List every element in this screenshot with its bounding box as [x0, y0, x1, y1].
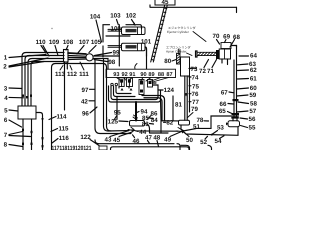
leader ejector text — [193, 32, 206, 42]
lower cylinder internal lines — [138, 44, 142, 51]
valve B2 — [148, 80, 153, 88]
svg-text:3: 3 — [4, 86, 8, 93]
lines right of circle — [93, 56, 119, 69]
leader from 80 — [172, 60, 176, 62]
svg-text:54: 54 — [215, 138, 222, 145]
leaders 93-87 into valves — [117, 78, 169, 83]
svg-text:6: 6 — [4, 117, 8, 124]
leader 53 + dot — [213, 131, 218, 135]
leader from 95 — [114, 116, 117, 120]
valve A1 dark mark — [120, 79, 123, 82]
scan speck — [51, 28, 52, 29]
svg-text:104: 104 — [90, 14, 101, 21]
step pipe to pump — [196, 116, 231, 128]
leader 124 — [158, 89, 163, 91]
svg-text:50: 50 — [186, 137, 193, 144]
main tank outline — [52, 64, 112, 151]
ladder (tilted rod) — [151, 5, 168, 62]
pipe between cylinders — [106, 35, 130, 37]
svg-text:43: 43 — [105, 137, 112, 144]
svg-text:84: 84 — [151, 117, 158, 124]
pipe from box right with arrow — [36, 113, 43, 151]
svg-text:45: 45 — [113, 137, 120, 144]
svg-text:79: 79 — [191, 106, 198, 113]
leaders 47 48 — [148, 141, 159, 147]
ticks on 73-77 leader line — [189, 69, 191, 102]
svg-text:42: 42 — [81, 98, 88, 105]
leaders 113 112 111 to plate assembly — [60, 62, 84, 70]
vertical x=119.3 — [118, 25, 120, 66]
port circle 2 — [115, 83, 117, 85]
apron cylinder body — [181, 57, 190, 76]
svg-text:98: 98 — [108, 59, 115, 66]
svg-text:75: 75 — [192, 83, 199, 90]
svg-text:88: 88 — [158, 72, 164, 78]
leader 86 — [148, 116, 152, 120]
svg-text:81: 81 — [175, 102, 182, 109]
small leader mark above manifold box — [135, 64, 137, 70]
tick on pipe x=31.5 — [31, 131, 33, 133]
valve 125 body — [130, 121, 145, 127]
small box bottom left of tank — [99, 146, 107, 150]
pump symbol right — [228, 121, 240, 127]
svg-text:72: 72 — [199, 68, 206, 75]
svg-text:60: 60 — [250, 85, 257, 92]
plate support line inside tank — [65, 62, 68, 110]
ladder rungs — [151, 8, 166, 60]
pipe 4 bend — [31, 62, 64, 107]
vertical V1 from circle down — [95, 61, 131, 134]
arrowhead on pipe x=42.5 — [41, 118, 44, 121]
leader 94 — [137, 112, 139, 113]
svg-text:105: 105 — [91, 39, 102, 46]
svg-text:90: 90 — [140, 72, 146, 78]
valve 82 body — [179, 120, 190, 125]
leader line for 73-77 labels — [189, 76, 191, 112]
leader from 1 — [9, 55, 46, 58]
svg-text:113: 113 — [55, 71, 66, 78]
svg-text:8: 8 — [4, 142, 8, 149]
pipe block bottom to valve 125 (thick) — [135, 102, 137, 121]
tick marks above junction box — [22, 95, 24, 97]
arrowheads under valves A1 A2 — [121, 88, 133, 91]
svg-text:7: 7 — [4, 132, 8, 139]
svg-text:61: 61 — [250, 76, 257, 83]
pipe from cylinder down to manifold box — [146, 56, 148, 69]
svg-text:112: 112 — [67, 71, 78, 78]
upper cylinder rod — [108, 29, 122, 31]
vertical V2 — [104, 60, 130, 132]
valve A2 — [127, 78, 133, 87]
leader from 98 — [94, 60, 107, 62]
svg-text:116: 116 — [59, 135, 70, 142]
leaders 67 66 65 — [228, 92, 235, 114]
svg-text:64: 64 — [250, 53, 257, 60]
valve block pipe loops — [119, 87, 129, 89]
ejector cylinder rod — [197, 52, 216, 55]
pipes below box — [23, 119, 32, 150]
svg-text:95: 95 — [114, 110, 121, 117]
svg-text:5: 5 — [4, 108, 8, 115]
svg-text:111: 111 — [79, 71, 89, 78]
pipe block right down — [160, 100, 163, 121]
leader 83 — [150, 123, 154, 126]
valve A2 stem — [128, 83, 130, 87]
valve A2 dark mark — [128, 79, 131, 82]
pipe y=113 horizontal — [116, 97, 118, 120]
tick on pipe x=31.5 — [31, 143, 33, 145]
pump circle — [86, 54, 93, 61]
svg-text:115: 115 — [59, 125, 70, 132]
leader from 104 — [96, 20, 102, 42]
lower cylinder rod — [108, 46, 122, 48]
pipe bend group top-left: 4 pipes from verticals to plate — [22, 53, 64, 107]
svg-text:Ejector Cylinder: Ejector Cylinder — [167, 30, 189, 34]
valve 82 bottom pipe to junction — [181, 125, 183, 131]
junction blob lower — [232, 113, 240, 116]
svg-text:78: 78 — [196, 117, 203, 124]
fitting above pump — [231, 116, 239, 118]
arrowhead on 185 line — [185, 93, 188, 96]
port circles left of valves — [111, 83, 113, 85]
vertical right line from top — [236, 7, 238, 12]
upper cylinder 100 body — [122, 27, 146, 35]
leader 46 — [133, 135, 135, 138]
leader from 102 with arrowhead — [132, 20, 135, 25]
svg-text:102: 102 — [126, 13, 137, 20]
leader 49 — [170, 132, 182, 137]
pump inlet arrow — [226, 122, 228, 125]
ejector rod hatch — [198, 53, 216, 56]
svg-text:1: 1 — [4, 55, 8, 62]
ejector cylinder piston plate — [216, 50, 219, 59]
apron rod upper stubs — [178, 49, 180, 54]
leader 52 — [205, 136, 208, 139]
svg-text:57: 57 — [249, 108, 256, 115]
leader 78 dash — [204, 120, 209, 122]
leader 85 — [150, 117, 154, 120]
apron cylinder rod (hatched) — [177, 54, 181, 65]
leader 54 — [220, 136, 225, 139]
tank line right curve — [208, 145, 212, 150]
svg-text:117118119120121: 117118119120121 — [52, 145, 92, 150]
pipe from lower cylinder right end down — [145, 47, 147, 56]
elbow pipes valve B1 to 82-pipe — [142, 96, 165, 121]
upper cylinder end line — [141, 28, 143, 35]
pump drain — [183, 127, 238, 136]
pipe 2 bend — [25, 56, 64, 107]
pump stub pipes — [233, 119, 237, 121]
leader from 5 — [9, 110, 18, 111]
svg-text:74: 74 — [192, 75, 199, 82]
leader from 3 — [9, 87, 22, 90]
leader 125 to valve — [119, 120, 128, 123]
svg-text:47: 47 — [145, 135, 152, 142]
ejector body divider — [224, 49, 226, 59]
ejector cylinder top box — [221, 43, 231, 49]
lower cylinder 99 body — [122, 43, 146, 51]
twin pipes from apron cylinder down to valve 82 — [185, 76, 187, 120]
leader from 115 — [51, 129, 58, 132]
leader 44 — [135, 131, 139, 132]
svg-text:107: 107 — [79, 39, 90, 46]
leader from 116 — [52, 139, 58, 144]
svg-text:109: 109 — [49, 39, 60, 46]
lower cylinder piston (hatched bar) — [126, 45, 137, 48]
label row box (manifold 93-87) — [106, 69, 176, 77]
pipe 3 bend — [28, 59, 64, 107]
leader from 96 — [90, 107, 97, 113]
leaders 73 72 71 — [191, 60, 217, 69]
top pipe corner at 103 — [103, 25, 110, 57]
leader from 6 — [9, 120, 22, 127]
junction blobs on right line — [233, 99, 239, 101]
vertical pipes near apron — [172, 96, 174, 121]
tank line R_a right corner — [181, 145, 190, 150]
leader from 8 — [9, 145, 23, 147]
svg-text:89: 89 — [148, 72, 154, 78]
pipe from corner to upper cylinder — [126, 25, 142, 29]
leader from 103 — [117, 20, 119, 25]
svg-text:87: 87 — [166, 72, 172, 78]
tick marks on left pipes — [22, 129, 24, 131]
leader from 99 — [95, 53, 112, 56]
ejector rod tip bracket — [196, 51, 198, 57]
svg-text:108: 108 — [63, 39, 74, 46]
upper cylinder piston (hatched bar) — [126, 29, 137, 32]
junction dot 53 — [211, 134, 213, 136]
svg-text:66: 66 — [220, 101, 227, 108]
tick on pipe x=42.5 — [42, 145, 44, 147]
svg-text:45: 45 — [162, 0, 169, 6]
hatch above valve 125 — [133, 115, 138, 120]
upper cylinder internal line — [137, 28, 139, 35]
leader from 97 — [90, 88, 96, 90]
svg-text:96: 96 — [82, 110, 89, 117]
svg-text:97: 97 — [82, 87, 89, 94]
leader from 2 (two lines) — [9, 58, 48, 67]
right vertical manifold line (double) — [236, 46, 238, 48]
svg-text:55: 55 — [249, 125, 256, 132]
junction arrows near valve bottom — [128, 127, 134, 133]
plate (injection head) — [64, 50, 69, 63]
leader from 79 — [188, 113, 194, 118]
valve B1 dark mark bottom — [140, 90, 143, 93]
valve A1 stem — [121, 83, 123, 87]
pipe loop L3 — [114, 86, 136, 97]
leaders 70 69 68 — [217, 40, 235, 48]
pipe from ejector to right vertical — [231, 46, 237, 48]
arrowhead leader 102 — [133, 23, 136, 26]
bottom tank R2 — [111, 147, 190, 150]
bottom tank lines — [95, 140, 174, 144]
valve B1 — [139, 80, 144, 95]
svg-text:4: 4 — [4, 95, 8, 102]
svg-text:80: 80 — [164, 58, 171, 65]
step pipe right of valve block — [145, 121, 179, 133]
svg-text:69: 69 — [223, 34, 230, 41]
top long line to right — [150, 5, 237, 7]
valve A1 — [119, 78, 124, 87]
leaders right column — [237, 56, 249, 128]
tick on pipe above box — [26, 96, 28, 98]
svg-text:67: 67 — [221, 89, 228, 96]
valve B1 dark mark top — [140, 81, 143, 85]
svg-text:49: 49 — [164, 137, 171, 144]
box 45 at top — [155, 0, 175, 5]
leader from 114 — [49, 117, 56, 120]
svg-text:56: 56 — [249, 116, 256, 123]
svg-text:73: 73 — [191, 66, 198, 73]
svg-text:59: 59 — [249, 92, 256, 99]
pipe from center junction to right — [136, 129, 196, 132]
svg-text:52: 52 — [200, 139, 207, 146]
bundle lines to pump circle — [68, 56, 86, 60]
ejector body bottom ports — [222, 59, 228, 65]
svg-text:103: 103 — [110, 13, 121, 20]
tick on pipe x=22 — [22, 143, 24, 145]
pipe loop L2 — [111, 86, 158, 100]
leader from 42 — [89, 100, 95, 102]
tick on pipe above box — [30, 95, 32, 97]
leaders from 110 109 108 107 105 — [41, 46, 96, 57]
leader apron text — [187, 53, 193, 56]
bracket left of 125 — [106, 118, 108, 125]
line bundle plate to pump circle — [68, 53, 86, 54]
junction box left — [18, 106, 36, 119]
svg-text:71: 71 — [207, 68, 214, 75]
svg-text:2: 2 — [3, 64, 7, 71]
pipe loop L4 — [116, 86, 131, 94]
svg-text:65: 65 — [219, 108, 226, 115]
apron rod hatch — [177, 54, 180, 64]
leader 82 dash — [164, 121, 167, 123]
svg-text:92: 92 — [121, 72, 127, 78]
leaders 43 45 — [110, 131, 132, 137]
leader 50 — [185, 133, 190, 137]
arrowheads at right junction — [181, 129, 185, 134]
svg-text:76: 76 — [192, 91, 199, 98]
svg-text:62: 62 — [250, 67, 257, 74]
svg-text:91: 91 — [129, 72, 135, 78]
right manifold double line — [234, 47, 237, 117]
svg-text:114: 114 — [57, 113, 68, 120]
pipe loop L1 — [109, 86, 161, 102]
svg-text:124: 124 — [164, 87, 175, 94]
tick on pipe x=42.5 — [42, 137, 44, 139]
arrowhead at center junction — [131, 129, 134, 132]
leader from 122 — [90, 140, 99, 146]
junction arrows right — [176, 128, 183, 132]
leader from 7 (two lines) — [9, 132, 31, 137]
ejector cylinder body — [219, 49, 230, 59]
leader from 4 — [9, 96, 24, 98]
svg-text:58: 58 — [250, 101, 257, 108]
tank line corner down — [177, 144, 180, 150]
valve B2 dark mark — [149, 81, 152, 84]
svg-text:Apron Cylinder: Apron Cylinder — [166, 50, 186, 54]
svg-text:101: 101 — [141, 39, 152, 46]
svg-text:93: 93 — [113, 72, 119, 78]
elbow pipe 2 to 82-pipe — [144, 98, 162, 121]
block right connections — [153, 83, 159, 90]
